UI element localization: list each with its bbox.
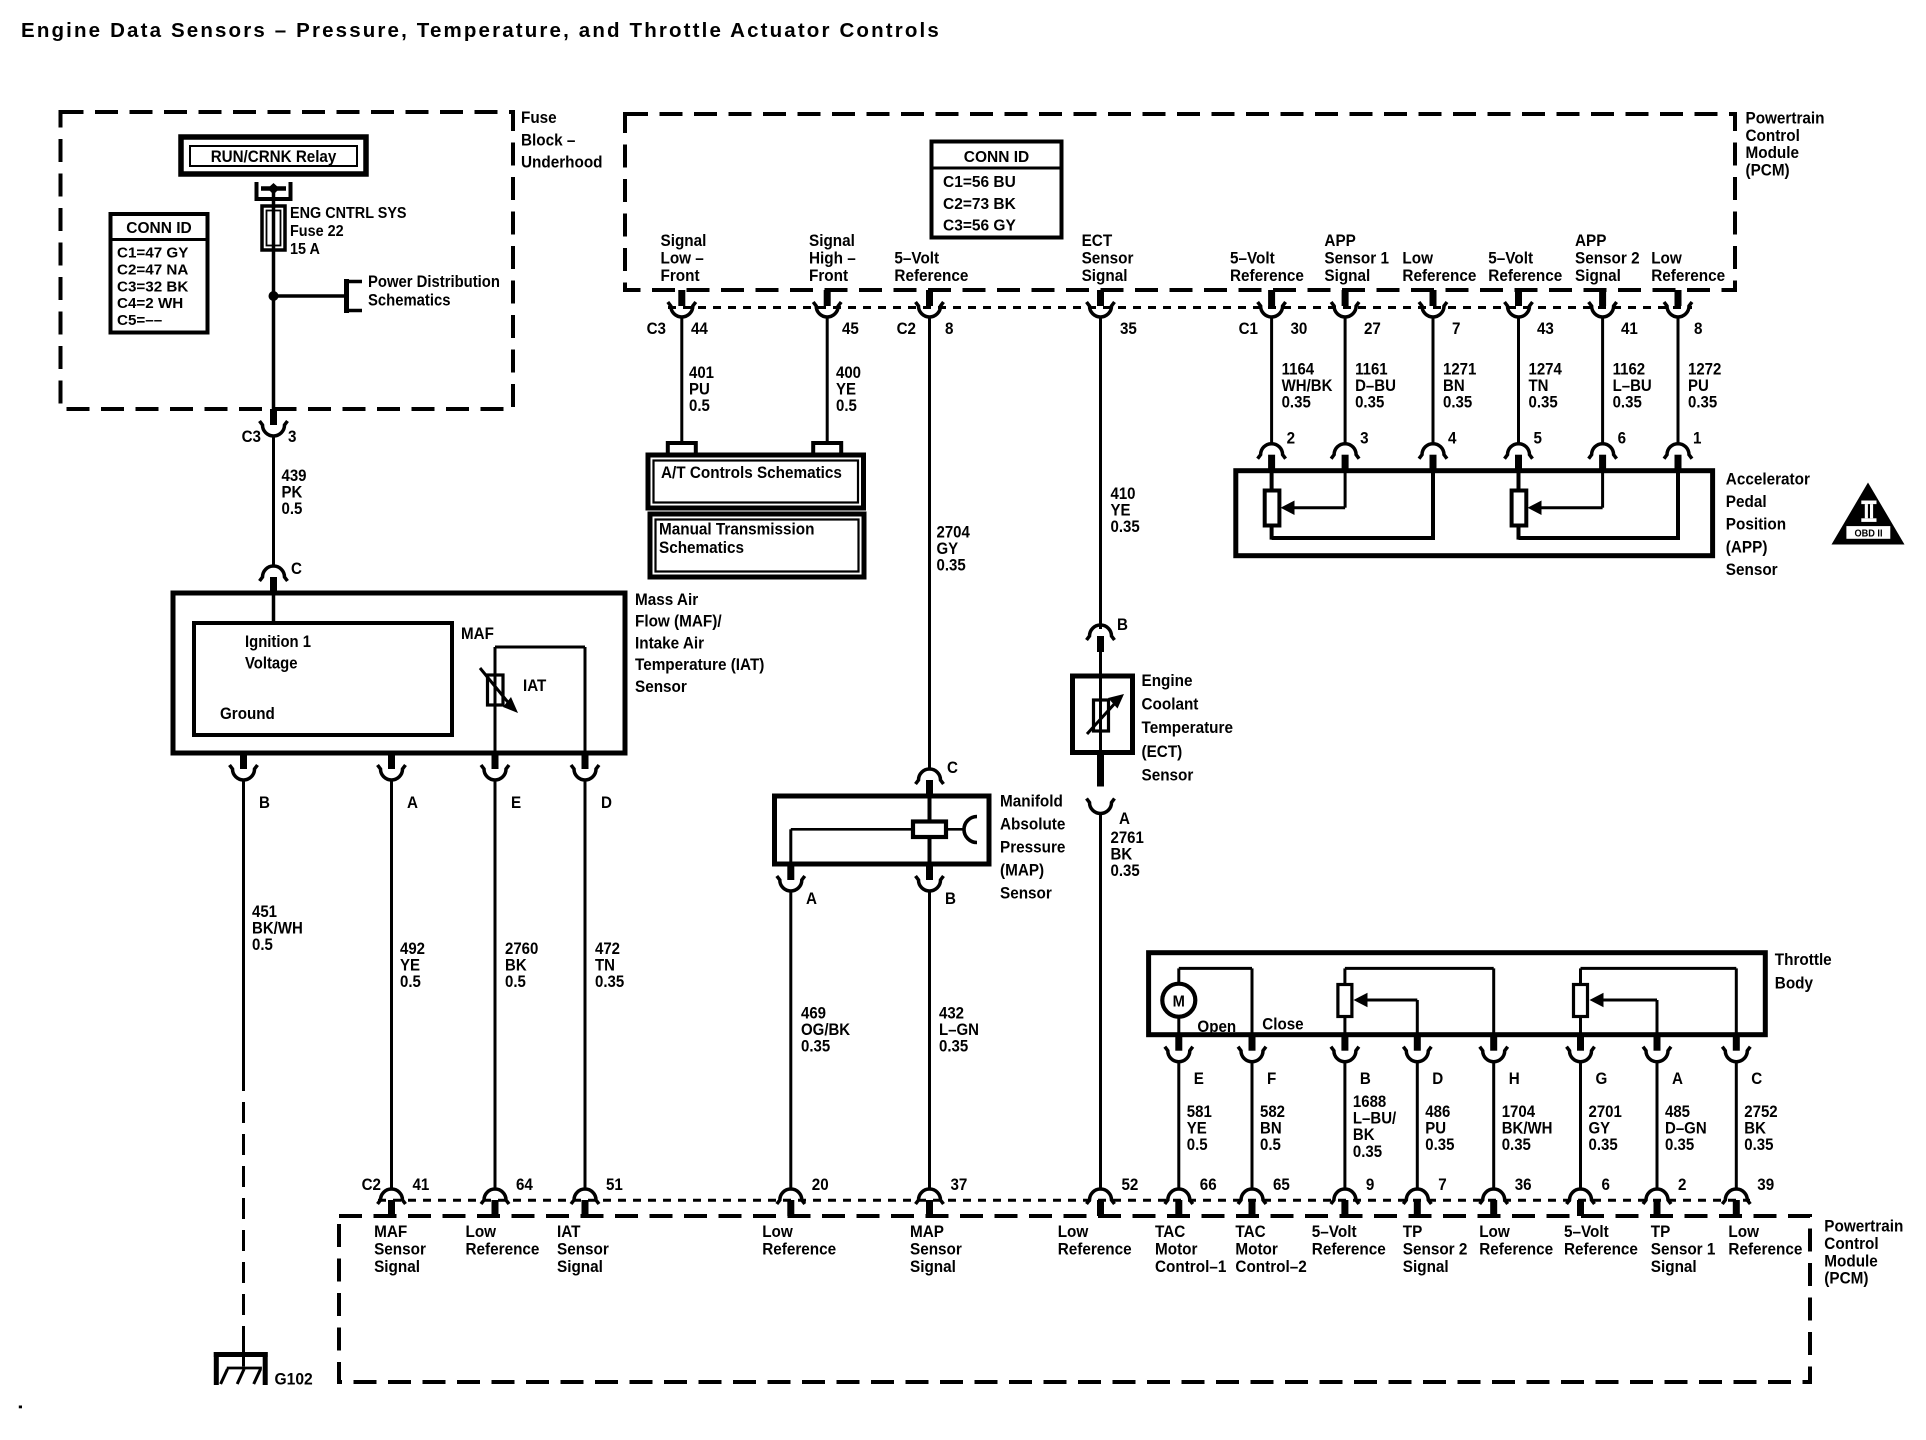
svg-text:L–BU/: L–BU/: [1353, 1110, 1397, 1128]
svg-text:C: C: [947, 759, 958, 777]
svg-text:Signal: Signal: [661, 231, 707, 250]
svg-text:30: 30: [1291, 320, 1308, 338]
svg-text:Underhood: Underhood: [521, 153, 603, 172]
svg-text:Control–1: Control–1: [1155, 1257, 1226, 1276]
fuse F22 ENG CNTRL SYS 15A: [262, 204, 407, 296]
connector APP pin 5: [1505, 430, 1543, 471]
svg-text:Sensor 1: Sensor 1: [1324, 249, 1389, 268]
svg-text:Control: Control: [1746, 126, 1800, 145]
svg-text:TP: TP: [1651, 1222, 1671, 1241]
svg-text:5–Volt: 5–Volt: [1230, 249, 1275, 268]
svg-text:Voltage: Voltage: [245, 655, 298, 673]
power distribution schematics reference bracket: [347, 273, 500, 313]
svg-text:C3=56 GY: C3=56 GY: [943, 218, 1016, 235]
wire 2752 BK: [1736, 1062, 1778, 1189]
svg-text:Engine: Engine: [1142, 671, 1193, 690]
svg-text:0.5: 0.5: [1187, 1137, 1208, 1155]
connector PCM pin 36: [1480, 1176, 1532, 1216]
pin label TAC Motor Control-1: [1155, 1222, 1226, 1276]
harness inline dotted connector line bottom: [378, 1199, 1750, 1202]
svg-text:C2=47 NA: C2=47 NA: [117, 261, 188, 278]
svg-text:5: 5: [1534, 430, 1543, 448]
svg-text:1: 1: [1693, 430, 1702, 448]
svg-text:7: 7: [1438, 1176, 1447, 1194]
pin label signal low front: [661, 231, 707, 285]
svg-text:IAT: IAT: [523, 677, 547, 695]
APP sensor name label: [1726, 470, 1811, 579]
pin label 5-Volt Reference: [1312, 1222, 1386, 1258]
MAP pin A connector: [777, 864, 818, 908]
svg-text:TAC: TAC: [1155, 1222, 1186, 1241]
powertrain control module PCM bottom dashed box: [339, 1216, 1810, 1382]
svg-text:582: 582: [1260, 1103, 1285, 1121]
wire relay to fuse: [272, 192, 276, 208]
connector pin 45: [813, 290, 859, 338]
svg-text:PU: PU: [1425, 1120, 1446, 1138]
svg-text:Flow (MAF)/: Flow (MAF)/: [635, 612, 722, 631]
MAP pin B connector: [916, 864, 956, 908]
svg-text:45: 45: [842, 320, 859, 338]
svg-text:APP: APP: [1324, 231, 1356, 250]
svg-text:Control: Control: [1824, 1234, 1878, 1253]
svg-text:Front: Front: [661, 266, 701, 285]
svg-text:Low: Low: [1058, 1222, 1089, 1241]
svg-text:Signal: Signal: [557, 1257, 603, 1276]
svg-text:Sensor: Sensor: [1726, 560, 1778, 579]
svg-text:2701: 2701: [1589, 1103, 1623, 1121]
PCM bottom label: [1824, 1217, 1903, 1288]
svg-text:Pressure: Pressure: [1000, 838, 1065, 857]
svg-text:B: B: [945, 890, 956, 908]
throttle body pin F connector: [1238, 1035, 1277, 1088]
svg-text:Reference: Reference: [1564, 1240, 1638, 1259]
svg-text:51: 51: [606, 1176, 623, 1194]
svg-text:E: E: [1194, 1070, 1204, 1088]
connector PCM pin 51: [571, 1176, 623, 1216]
throttle body label: [1775, 950, 1832, 992]
svg-text:0.5: 0.5: [505, 974, 526, 992]
svg-text:F: F: [1267, 1070, 1277, 1088]
connector pin 43: [1505, 290, 1555, 338]
svg-text:8: 8: [1694, 320, 1703, 338]
MAP sensing element: [791, 796, 977, 864]
ground G102 symbol: [214, 1352, 313, 1389]
svg-text:CONN ID: CONN ID: [964, 149, 1029, 166]
svg-text:52: 52: [1122, 1176, 1139, 1194]
connector PCM pin 64: [481, 1176, 533, 1216]
wire 1161 D–BU 0.35: [1345, 317, 1396, 444]
svg-text:581: 581: [1187, 1103, 1212, 1121]
svg-text:ECT: ECT: [1082, 231, 1113, 250]
APP wiper 1 arrow: [1281, 471, 1346, 515]
svg-text:3: 3: [1360, 430, 1369, 448]
svg-text:0.5: 0.5: [252, 937, 273, 955]
svg-text:39: 39: [1757, 1176, 1774, 1194]
svg-text:0.35: 0.35: [1111, 519, 1140, 537]
svg-text:E: E: [511, 794, 521, 812]
wire 1272 PU 0.35: [1678, 317, 1722, 444]
svg-text:0.35: 0.35: [1443, 394, 1472, 412]
svg-text:1271: 1271: [1443, 361, 1477, 379]
svg-text:41: 41: [1621, 320, 1638, 338]
svg-text:1162: 1162: [1613, 361, 1646, 379]
wire 400 YE 0.5: [827, 317, 861, 443]
svg-text:Motor: Motor: [1235, 1240, 1278, 1259]
pin label Low Reference: [1058, 1222, 1132, 1258]
svg-text:Reference: Reference: [1728, 1240, 1802, 1259]
wire 2760 BK 0.5 low reference: [495, 780, 539, 1189]
svg-text:4: 4: [1448, 430, 1457, 448]
connector pin 41: [1589, 290, 1638, 338]
ignition voltage element box: [194, 623, 452, 735]
wire 410 YE 0.35 ECT signal: [1101, 317, 1140, 629]
pin label Low Reference: [1728, 1222, 1802, 1258]
svg-text:1161: 1161: [1355, 361, 1388, 379]
TAC motor M: [1162, 968, 1303, 1036]
svg-text:C: C: [1751, 1070, 1762, 1088]
svg-text:Throttle: Throttle: [1775, 950, 1832, 969]
svg-text:401: 401: [689, 364, 714, 382]
svg-text:Coolant: Coolant: [1142, 695, 1199, 714]
connector PCM pin 41: [362, 1176, 430, 1216]
TP sensor 2 potentiometer: [1338, 968, 1494, 1034]
svg-text:A: A: [1672, 1070, 1683, 1088]
svg-text:A: A: [407, 794, 418, 812]
svg-text:C2: C2: [897, 320, 917, 338]
svg-text:5–Volt: 5–Volt: [1312, 1222, 1357, 1241]
connector PCM pin 52: [1087, 1176, 1139, 1216]
wire 581 YE: [1179, 1062, 1212, 1189]
svg-text:C1: C1: [1239, 320, 1259, 338]
svg-text:D: D: [601, 794, 612, 812]
svg-text:YE: YE: [1187, 1120, 1207, 1138]
svg-text:Signal: Signal: [1575, 266, 1621, 285]
wire fuse to connector C3: [272, 296, 276, 409]
svg-text:0.35: 0.35: [595, 974, 624, 992]
CONN ID table PCM: [932, 142, 1062, 238]
svg-text:0.5: 0.5: [689, 398, 710, 416]
svg-text:Fuse: Fuse: [521, 108, 557, 127]
svg-text:0.35: 0.35: [1502, 1137, 1531, 1155]
svg-text:B: B: [259, 794, 270, 812]
svg-text:2704: 2704: [937, 524, 971, 542]
MAF pin A connector: [378, 753, 419, 812]
svg-text:C1=56 BU: C1=56 BU: [943, 174, 1016, 191]
svg-text:Position: Position: [1726, 515, 1786, 534]
pin label 5-volt reference C1: [1230, 249, 1304, 285]
pin label ECT sensor signal: [1082, 231, 1134, 285]
throttle body pin A connector: [1643, 1035, 1683, 1088]
svg-text:36: 36: [1515, 1176, 1532, 1194]
svg-text:Open: Open: [1197, 1018, 1236, 1036]
svg-text:492: 492: [400, 940, 425, 958]
pin label Low Reference: [762, 1222, 836, 1258]
MAP sensor box: [775, 796, 990, 864]
pin label Low Reference: [1479, 1222, 1553, 1258]
pin label APP sensor 1 signal: [1324, 231, 1389, 285]
ECT pin A connector: [1087, 753, 1131, 829]
svg-text:BK/WH: BK/WH: [1502, 1120, 1553, 1138]
svg-text:Engine Data Sensors – Pressure: Engine Data Sensors – Pressure, Temperat…: [21, 19, 941, 42]
svg-text:Sensor: Sensor: [910, 1240, 962, 1259]
svg-text:Signal: Signal: [809, 231, 855, 250]
svg-text:Signal: Signal: [910, 1257, 956, 1276]
svg-text:APP: APP: [1575, 231, 1607, 250]
connector PCM pin 20: [777, 1176, 829, 1216]
junction node on ignition feed: [269, 291, 279, 301]
svg-text:MAP: MAP: [910, 1222, 944, 1241]
fuse block - underhood dashed box: [61, 112, 514, 409]
svg-text:Low: Low: [466, 1222, 497, 1241]
svg-text:Low: Low: [1728, 1222, 1759, 1241]
svg-text:RUN/CRNK Relay: RUN/CRNK Relay: [211, 148, 337, 166]
svg-text:G102: G102: [275, 1370, 313, 1389]
svg-text:35: 35: [1120, 320, 1137, 338]
svg-text:Accelerator: Accelerator: [1726, 470, 1811, 489]
svg-text:BK: BK: [1353, 1127, 1375, 1145]
throttle body pin D connector: [1403, 1035, 1443, 1088]
powertrain control module PCM top dashed box: [625, 114, 1735, 290]
svg-text:A: A: [806, 890, 817, 908]
connector C3 pin 3 fuse block: [242, 409, 297, 446]
svg-text:CONN ID: CONN ID: [126, 220, 191, 237]
connector PCM pin 9: [1331, 1176, 1375, 1216]
svg-text:C5=––: C5=––: [117, 312, 162, 329]
svg-text:A/T Controls Schematics: A/T Controls Schematics: [661, 463, 842, 482]
svg-text:Fuse 22: Fuse 22: [290, 222, 344, 240]
TP sensor 2 wiper arrow: [1354, 993, 1418, 1035]
svg-text:Schematics: Schematics: [659, 538, 744, 557]
APP wiper 2 arrow: [1528, 471, 1603, 515]
wire 401 PU 0.5: [682, 317, 714, 443]
MAF pin D connector: [571, 753, 612, 812]
connector PCM pin 6: [1567, 1176, 1611, 1216]
svg-text:(PCM): (PCM): [1746, 161, 1790, 180]
svg-text:Low: Low: [1479, 1222, 1510, 1241]
svg-text:37: 37: [951, 1176, 968, 1194]
svg-text:C3=32 BK: C3=32 BK: [117, 278, 188, 295]
throttle body pin C connector: [1722, 1035, 1762, 1088]
svg-text:Module: Module: [1746, 143, 1800, 162]
wire 1164 WH/BK 0.35: [1272, 317, 1333, 444]
svg-text:BK/WH: BK/WH: [252, 920, 303, 938]
svg-text:486: 486: [1425, 1103, 1450, 1121]
pin label signal high front: [809, 231, 856, 285]
svg-text:Close: Close: [1262, 1016, 1303, 1034]
svg-text:H: H: [1509, 1070, 1520, 1088]
wire 2701 GY: [1581, 1062, 1623, 1189]
pin label low reference 8: [1651, 249, 1725, 285]
connector APP pin 3: [1331, 430, 1369, 471]
svg-text:C1=47 GY: C1=47 GY: [117, 245, 188, 262]
svg-text:0.35: 0.35: [1425, 1137, 1454, 1155]
wire 469 OG/BK 0.35: [791, 891, 851, 1189]
svg-text:43: 43: [1537, 320, 1554, 338]
svg-text:D: D: [1432, 1070, 1443, 1088]
connector pin 8 low ref: [1664, 290, 1703, 338]
svg-text:66: 66: [1200, 1176, 1217, 1194]
connector PCM pin 2: [1643, 1176, 1687, 1216]
svg-text:0.35: 0.35: [1353, 1143, 1382, 1161]
svg-text:Signal: Signal: [1403, 1257, 1449, 1276]
relay K RUN/CRNK Relay box: [181, 137, 366, 174]
connector B at ECT sensor: [1087, 616, 1128, 676]
MAP sensor name label: [1000, 792, 1065, 903]
svg-text:15 A: 15 A: [290, 240, 320, 258]
connector pin 7: [1419, 290, 1461, 338]
svg-text:5–Volt: 5–Volt: [1564, 1222, 1609, 1241]
svg-text:C4=2 WH: C4=2 WH: [117, 295, 183, 312]
svg-text:WH/BK: WH/BK: [1282, 378, 1333, 396]
pin label MAF Sensor Signal: [374, 1222, 426, 1276]
svg-text:65: 65: [1273, 1176, 1290, 1194]
svg-text:0.35: 0.35: [1688, 394, 1717, 412]
pin label 5-Volt Reference: [1564, 1222, 1638, 1258]
pin label TP Sensor 2 Signal: [1403, 1222, 1468, 1276]
svg-text:MAF: MAF: [461, 625, 494, 643]
MAF/IAT sensor name label: [635, 590, 764, 696]
svg-text:Front: Front: [809, 266, 849, 285]
svg-text:Power Distribution: Power Distribution: [368, 273, 500, 291]
svg-text:Sensor 1: Sensor 1: [1651, 1240, 1716, 1259]
svg-text:(PCM): (PCM): [1824, 1269, 1868, 1288]
wire 492 YE 0.5 MAF signal: [392, 780, 426, 1189]
pin label MAP Sensor Signal: [910, 1222, 962, 1276]
svg-text:L–BU: L–BU: [1613, 378, 1652, 396]
svg-text:PK: PK: [282, 484, 303, 502]
wire 1274 TN 0.35: [1519, 317, 1563, 444]
svg-text:Sensor: Sensor: [374, 1240, 426, 1259]
svg-text:C3: C3: [647, 320, 667, 338]
svg-text:Pedal: Pedal: [1726, 492, 1767, 511]
pin label TAC Motor Control-2: [1235, 1222, 1306, 1276]
svg-text:5–Volt: 5–Volt: [1488, 249, 1533, 268]
svg-text:2: 2: [1678, 1176, 1687, 1194]
wire ignition feed inside MAF: [272, 593, 276, 623]
svg-text:GY: GY: [937, 541, 959, 559]
svg-text:Reference: Reference: [1058, 1240, 1132, 1259]
svg-text:ENG CNTRL SYS: ENG CNTRL SYS: [290, 204, 407, 222]
svg-text:0.35: 0.35: [1744, 1137, 1773, 1155]
APP potentiometer 1: [1265, 471, 1433, 540]
svg-text:Sensor 2: Sensor 2: [1575, 249, 1640, 268]
svg-text:Reference: Reference: [1651, 266, 1725, 285]
svg-text:439: 439: [282, 467, 307, 485]
connector C3 pin 44: [647, 290, 708, 338]
svg-text:8: 8: [945, 320, 954, 338]
ECT sensor name label: [1142, 671, 1233, 784]
svg-text:41: 41: [413, 1176, 430, 1194]
page mark dot: [19, 1406, 22, 1409]
svg-text:Powertrain: Powertrain: [1746, 109, 1825, 128]
svg-text:Body: Body: [1775, 974, 1813, 993]
svg-text:TAC: TAC: [1235, 1222, 1266, 1241]
svg-text:5–Volt: 5–Volt: [894, 249, 939, 268]
svg-text:0.35: 0.35: [1589, 1137, 1618, 1155]
connector C at MAF sensor: [260, 560, 303, 593]
svg-text:Low: Low: [762, 1222, 793, 1241]
throttle body pin E connector: [1165, 1035, 1204, 1088]
wire 1704 BK/WH: [1494, 1062, 1553, 1189]
svg-text:1688: 1688: [1353, 1093, 1387, 1111]
svg-text:C3: C3: [242, 428, 262, 446]
svg-text:Low: Low: [1651, 249, 1682, 268]
svg-text:B: B: [1117, 616, 1128, 634]
svg-text:Mass Air: Mass Air: [635, 590, 699, 609]
svg-text:Sensor: Sensor: [557, 1240, 609, 1259]
svg-text:Reference: Reference: [762, 1240, 836, 1259]
OBD II symbol: [1832, 483, 1905, 545]
svg-text:0.5: 0.5: [282, 501, 303, 519]
svg-text:(MAP): (MAP): [1000, 861, 1044, 880]
MAF/IAT sensor box: [173, 593, 625, 753]
wire 1271 BN 0.35: [1433, 317, 1477, 444]
throttle body pin G connector: [1567, 1035, 1608, 1088]
svg-text:GY: GY: [1589, 1120, 1611, 1138]
svg-text:Temperature: Temperature: [1142, 718, 1233, 737]
svg-text:0.35: 0.35: [801, 1038, 830, 1056]
svg-text:Module: Module: [1824, 1252, 1878, 1271]
harness inline dotted connector line top: [668, 306, 1692, 309]
svg-text:Reference: Reference: [1230, 266, 1304, 285]
svg-text:0.35: 0.35: [1111, 863, 1140, 881]
svg-text:485: 485: [1665, 1103, 1690, 1121]
ECT variable resistor element: [1087, 676, 1124, 753]
svg-text:Signal: Signal: [1324, 266, 1370, 285]
pin label 5-volt reference C2: [894, 249, 968, 285]
relay output terminal connector: [257, 182, 291, 199]
svg-text:YE: YE: [1111, 502, 1131, 520]
CONN ID table fuse block: [111, 214, 208, 333]
pin label 5-volt reference 43: [1488, 249, 1562, 285]
TP sensor 1 wiper arrow: [1590, 993, 1658, 1035]
svg-text:(ECT): (ECT): [1142, 742, 1183, 761]
svg-text:0.35: 0.35: [939, 1038, 968, 1056]
wire 2761 BK 0.35: [1101, 814, 1145, 1190]
svg-text:(APP): (APP): [1726, 538, 1768, 557]
svg-text:BK: BK: [1744, 1120, 1766, 1138]
svg-text:Low –: Low –: [661, 249, 704, 268]
connector PCM pin 65: [1238, 1176, 1290, 1216]
svg-text:6: 6: [1602, 1176, 1611, 1194]
svg-text:472: 472: [595, 940, 620, 958]
svg-text:BK: BK: [1111, 846, 1133, 864]
connector APP pin 6: [1589, 430, 1627, 471]
connector C at MAP sensor: [916, 759, 959, 796]
terminal to A/T controls pin 44: [668, 443, 696, 455]
svg-text:0.35: 0.35: [1665, 1137, 1694, 1155]
svg-text:400: 400: [836, 364, 861, 382]
svg-text:Sensor 2: Sensor 2: [1403, 1240, 1468, 1259]
svg-text:451: 451: [252, 903, 277, 921]
svg-text:9: 9: [1366, 1176, 1375, 1194]
svg-text:Motor: Motor: [1155, 1240, 1198, 1259]
connector PCM pin 66: [1165, 1176, 1217, 1216]
pin label Low Reference: [466, 1222, 540, 1258]
svg-text:2760: 2760: [505, 940, 539, 958]
A/T controls schematics box: [648, 455, 864, 508]
MAF pin E connector: [481, 753, 521, 812]
MAF pin B connector: [230, 753, 270, 812]
svg-text:OG/BK: OG/BK: [801, 1022, 851, 1040]
svg-text:C: C: [291, 560, 302, 578]
pin label low reference 7: [1402, 249, 1476, 285]
terminal to A/T controls pin 45: [813, 443, 841, 455]
svg-text:Low: Low: [1402, 249, 1433, 268]
svg-text:MAF: MAF: [374, 1222, 407, 1241]
wire 2704 GY 0.35 5-volt ref: [930, 317, 971, 769]
svg-text:D–GN: D–GN: [1665, 1120, 1707, 1138]
